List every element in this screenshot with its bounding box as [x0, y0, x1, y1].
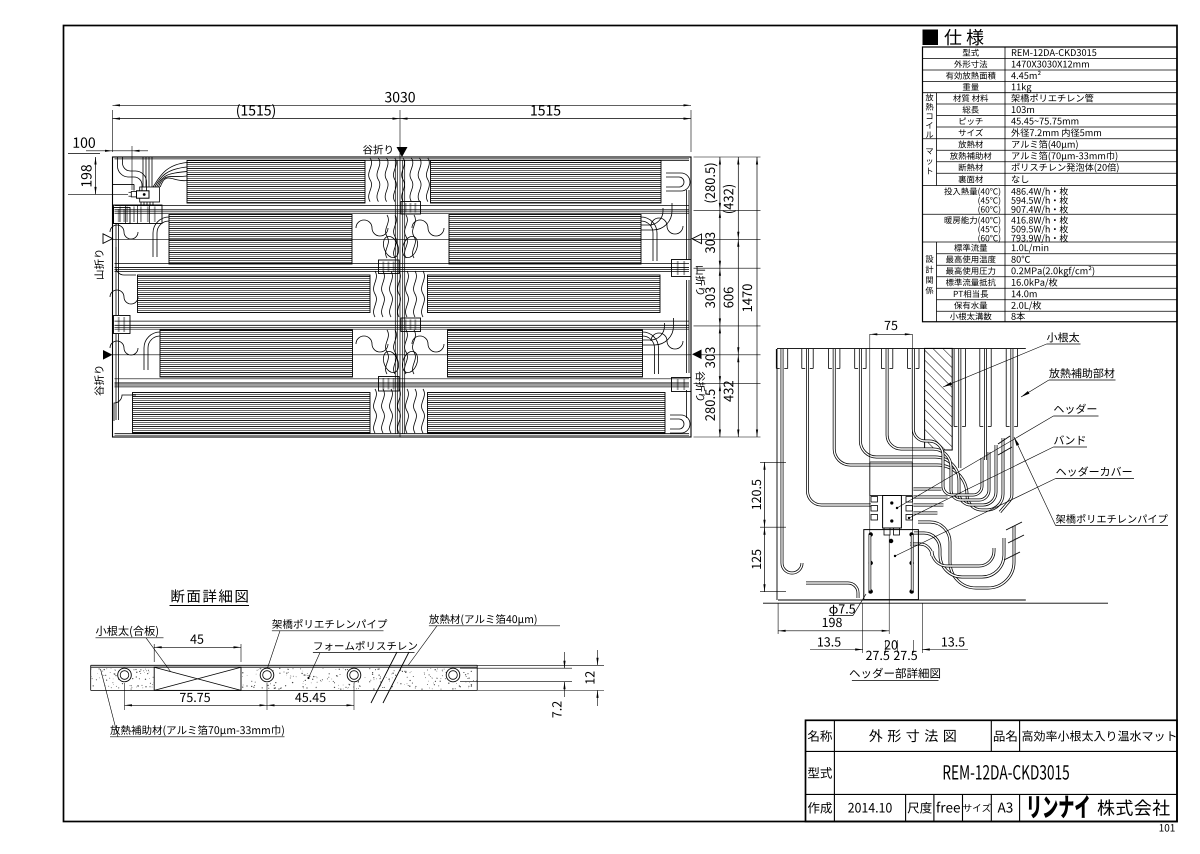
detail: left pipe 6 nested loop right — [913, 349, 982, 495]
detail label ヘッダー — [1054, 404, 1096, 414]
plan panel band 3 left (pipe hatch) — [138, 275, 371, 313]
detail: header side ports and bands — [871, 497, 878, 503]
plan: header inlet fitting — [131, 192, 136, 197]
plan: header body (top-left) — [137, 191, 150, 198]
section label 小根太(合板) — [96, 626, 158, 638]
plan: center connector block at band1/2 boundary — [401, 202, 421, 215]
detail: left pipe 1 with bottom hairpin loop — [782, 349, 802, 573]
plan: center connector block at band3/4 boundary — [401, 318, 421, 332]
plan: right edge teardrop loops band2 — [651, 218, 683, 234]
plan panel band 4 left (pipe hatch) — [160, 330, 353, 377]
detail: right groove pipe 3 down valley — [1000, 349, 1012, 512]
detail: left pipe 2 loop to header — [808, 349, 872, 505]
plan: right edge connector block lower — [672, 378, 692, 392]
dim 3030 top — [112, 110, 114, 152]
title block 品名 — [994, 730, 1017, 742]
spec table group label マット (vertical) — [926, 148, 933, 154]
plan panel band 1 left (pipe hatch) — [187, 161, 365, 204]
plan: right edge vertical pipe runs — [686, 190, 688, 260]
detail label 架橋ポリエチレンパイプ — [1056, 514, 1168, 523]
plan: band5 center fold crossing pipes (wavy) — [374, 389, 377, 433]
label tani-ori right edge — [696, 371, 706, 400]
label yama-ori (mountain fold) left edge — [94, 251, 104, 279]
plan panel band 2 right (pipe hatch) — [449, 215, 641, 265]
section label 放熱補助材(アルミ箔70μm-33mm巾) — [110, 725, 284, 736]
section: strip outline with foil top lines — [91, 664, 478, 666]
plan: pipes from header down to connector row — [140, 202, 142, 206]
detail label ヘッダーカバー — [1056, 466, 1131, 476]
plan: perimeter pipe lines bottom edge — [115, 433, 690, 435]
title block 高効率小根太入り温水マット — [1022, 730, 1175, 741]
detail: right groove stubs (3) — [953, 349, 955, 427]
plan: header block outline (top-left) — [140, 187, 160, 202]
detail: bottom right big U pipe inner — [910, 544, 994, 566]
title block 名称 — [808, 730, 832, 742]
plan: connector row below header (4 blocks) — [114, 205, 163, 224]
detail: bottom right big U pipe outer — [918, 522, 1014, 588]
dim 198 left — [95, 157, 97, 194]
detail: top surface line — [777, 347, 1026, 349]
dim chain middle (432)/606/432 — [737, 157, 739, 437]
plan: left edge loops band2-3 — [110, 225, 138, 239]
detail: header cover rect with screws — [864, 530, 919, 600]
plan: band1 center fold crossing pipes (wavy) — [369, 158, 372, 202]
detail label 放熱補助部材 — [1049, 368, 1114, 378]
section: break mark double slash — [371, 652, 397, 703]
spec table grid lines — [923, 58, 1178, 60]
plan view: mat outline — [113, 157, 692, 437]
plan: extra sweep arcs band2/band4 right ends — [641, 208, 663, 225]
section dim 45.45 — [267, 704, 354, 706]
detail bottom dims — [777, 603, 779, 634]
title block リンナイ logo (bold) — [1029, 795, 1089, 818]
dim 100 top left — [86, 150, 148, 152]
plan panel band 5 right (pipe hatch) — [428, 393, 666, 434]
title block 型式 — [808, 767, 832, 778]
detail: right groove pipe 1 down — [958, 349, 961, 468]
plan: right edge connector block upper — [672, 260, 692, 277]
spec table row 投入熱量 (3 lines) — [944, 187, 1000, 196]
plan: header supply loop top-left (rounded corner pipes) — [118, 158, 143, 192]
plan: pipes from header to band1 panel (S-curves) — [153, 163, 187, 188]
plan: center connector block at band4/5 boundary — [379, 377, 400, 392]
title block 作成 — [808, 802, 832, 814]
detail: bottom-left horizontal pipe run into cover — [806, 583, 858, 598]
label tani-ori (valley fold) top center — [363, 145, 392, 155]
title block grid — [806, 750, 1178, 752]
dim (1515) top left half — [113, 118, 401, 120]
plan: center connector block at band2/3 boundary — [379, 260, 400, 274]
plan: band1 right end U-loop — [666, 173, 690, 191]
plan: left edge connector block upper — [114, 208, 131, 224]
title block 尺度 — [908, 802, 932, 814]
plan: inter-band pipe run lines at y=210.4 — [115, 205, 690, 207]
title block A3 — [998, 802, 1013, 812]
detail left dims 120.5 and 125 — [760, 461, 786, 463]
dim 75 top of detail — [870, 333, 913, 335]
detail: hatched koneda (joist) column — [925, 348, 953, 450]
detail: header right port stubs — [913, 488, 941, 491]
plan: band4 center loop cluster — [356, 336, 388, 352]
title block サイズ — [963, 803, 990, 812]
plan: perimeter pipe lines top edge — [115, 158, 690, 160]
title block REM-12DA-CKD3015 — [944, 765, 1069, 780]
detail: pipe cut marks right side — [998, 436, 1010, 444]
plan: margin corner sweep arcs band4 right — [643, 332, 659, 374]
detail: left pipe 4 nested loop right — [860, 349, 996, 505]
detail: header block — [883, 496, 902, 529]
spec table row 暖房能力 (3 lines) — [945, 216, 1001, 225]
detail: left pipe 5 nested loop right — [887, 349, 989, 500]
detail: left groove stubs (6) — [775, 349, 777, 369]
section: joist box with X cross — [154, 667, 241, 690]
plan: vertical center fold line (tani-ori) — [399, 153, 401, 437]
plan: inter-band pipe run lines at y=268.2 — [115, 262, 690, 264]
label tani-ori (valley fold) left edge — [94, 367, 104, 396]
section: stipple texture (foam) — [90, 668, 477, 690]
plan: band2 center loop cluster — [356, 220, 388, 236]
detail caption ヘッダー部詳細図 — [850, 668, 940, 679]
detail: 75 dim extension verticals — [869, 334, 871, 586]
section dim 12 right — [477, 664, 604, 666]
plan panel band 3 right (pipe hatch) — [428, 275, 661, 313]
page number 101 — [1160, 824, 1175, 832]
plan: margin corner sweep arcs band2 right — [641, 217, 657, 261]
detail label 小根太 — [1047, 332, 1079, 342]
plan panel band 2 left (pipe hatch) — [169, 215, 352, 265]
plan: inter-band pipe run lines at y=383.6 — [115, 378, 690, 380]
detail label バンド — [1054, 435, 1085, 444]
plan panel band 5 left (pipe hatch) — [133, 393, 371, 434]
detail: pipes from header down through cover — [869, 535, 872, 592]
detail: header bottom ports — [884, 528, 890, 535]
title block free — [936, 802, 960, 813]
dim 1470 outer right — [756, 157, 758, 437]
title block 2014.10 — [848, 803, 891, 813]
section label 放熱材(アルミ箔40μm) — [429, 614, 536, 625]
spec table header black square — [923, 30, 939, 46]
detail: header mounting plate — [870, 462, 913, 496]
plan: inter-band pipe run lines at y=325.9 — [115, 320, 690, 322]
plan: horizontal fold line lower (tani-ori) — [113, 354, 692, 356]
plan: left edge vertical pipe runs — [115, 224, 117, 315]
section: pipe circles — [118, 668, 132, 682]
plan: left edge loops band4 — [110, 341, 138, 355]
plan right dims: extension lines — [694, 156, 761, 158]
detail: left pipe 3 big nested loop right — [834, 349, 1003, 510]
plan: horizontal fold line upper (yama-ori) — [113, 238, 692, 240]
section label 架橋ポリエチレンパイプ — [272, 619, 387, 629]
plan: vertical pipes from top edge down to header — [142, 158, 144, 188]
spec table outer frame — [923, 47, 1178, 322]
title block frame — [806, 720, 1178, 821]
plan: center vertical pipe strands along fold — [394, 160, 396, 434]
detail label phi7.5 — [829, 604, 855, 616]
section title 断面詳細図 — [172, 589, 248, 602]
label yama-ori right edge — [696, 266, 706, 294]
spec table group label 放熱コイル (vertical) — [926, 94, 934, 102]
spec table group label 設計関係 (vertical) — [926, 255, 934, 262]
title block 外形寸法図 — [869, 729, 955, 742]
plan: left edge connector block lower — [114, 316, 131, 334]
plan: margin corner sweep arcs band4 left — [144, 332, 160, 370]
detail dim 20 and 27.5 ext lines — [885, 640, 887, 653]
detail view: bottom edge lines — [778, 599, 1026, 601]
section dim 7.2 right — [460, 667, 572, 669]
plan panel band 1 right (pipe hatch) — [431, 161, 662, 204]
detail: right groove pipe 2 down — [984, 349, 987, 460]
detail: bottom right big U pipe middle — [914, 533, 1004, 577]
section dim 45 — [153, 644, 155, 662]
dim 1515 top right half — [400, 118, 691, 120]
spec table header text 仕様 — [944, 29, 983, 46]
plan: mat outline notch top-left — [113, 183, 135, 185]
section dim 75.75 — [124, 683, 126, 710]
detail view: left border line — [776, 349, 778, 600]
plan panel band 4 right (pipe hatch) — [448, 330, 643, 377]
plan: band3 center fold crossing pipes (wavy) — [374, 271, 377, 317]
title block 株式会社 — [1098, 799, 1170, 816]
section label フォームポリスチレン — [314, 641, 417, 651]
plan: right edge teardrop loops band4 — [651, 333, 683, 349]
spec table rows text — [963, 49, 979, 57]
dim chain inner 280.5/303/303/303/280.5 — [719, 157, 721, 437]
plan: band5 right end U-loop — [670, 415, 690, 433]
plan: margin corner sweep arcs band2 left — [153, 217, 169, 257]
